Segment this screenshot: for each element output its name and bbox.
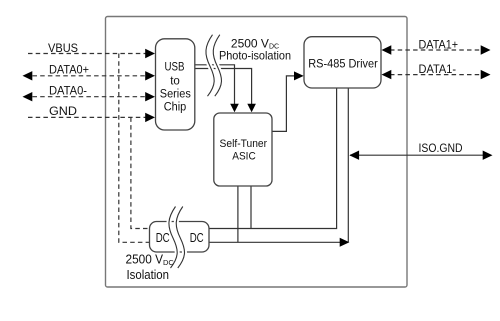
svg-text:Photo-isolation: Photo-isolation xyxy=(219,49,291,63)
svg-text:VBUS: VBUS xyxy=(48,43,78,55)
svg-text:Self-Tuner: Self-Tuner xyxy=(220,138,268,150)
svg-text:USB: USB xyxy=(165,62,185,74)
svg-text:Chip: Chip xyxy=(164,102,187,114)
svg-text:DATA0-: DATA0- xyxy=(49,86,87,98)
svg-text:Series: Series xyxy=(160,89,191,101)
svg-text:ISO.GND: ISO.GND xyxy=(419,143,463,155)
svg-text:DC: DC xyxy=(156,231,170,245)
svg-text:DC: DC xyxy=(190,231,204,245)
svg-text:ASIC: ASIC xyxy=(232,151,256,163)
svg-text:DATA1-: DATA1- xyxy=(419,64,457,76)
svg-text:RS-485 Driver: RS-485 Driver xyxy=(308,57,378,71)
svg-text:DATA0+: DATA0+ xyxy=(49,65,89,77)
svg-text:GND: GND xyxy=(49,106,77,118)
svg-text:to: to xyxy=(170,76,180,88)
svg-text:Isolation: Isolation xyxy=(127,268,170,282)
svg-text:DATA1+: DATA1+ xyxy=(419,40,459,52)
